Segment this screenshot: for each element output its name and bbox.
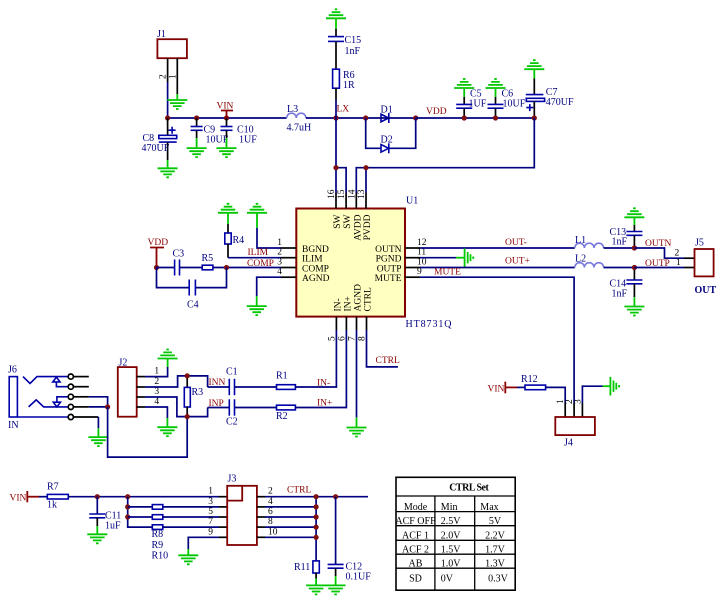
- inductor L3 4.7uH: [287, 104, 312, 134]
- connector J5: [695, 238, 717, 297]
- wire J6 sleeve to ground: [73, 417, 98, 428]
- svg-text:10: 10: [417, 258, 427, 268]
- node J6 tip/ring junction: [105, 404, 110, 409]
- svg-text:4: 4: [277, 267, 282, 277]
- node bus row10: [314, 535, 319, 540]
- J6 contact circle 1: [68, 374, 73, 379]
- svg-text:3: 3: [277, 258, 282, 268]
- svg-text:5V: 5V: [489, 516, 502, 527]
- J6 ring switch arrow: [53, 397, 68, 407]
- svg-text:IN+: IN+: [343, 296, 353, 311]
- wire J3 pin 9 to ground: [188, 537, 227, 549]
- node J1/C8 junction: [165, 115, 170, 120]
- svg-text:C4: C4: [187, 300, 199, 311]
- svg-text:R11: R11: [294, 562, 310, 573]
- wire OUTP to J5 pin 1: [634, 267, 694, 269]
- wire J2 pin 3 to INP rail: [137, 397, 208, 417]
- svg-text:VDD: VDD: [426, 107, 447, 117]
- diode D2: [381, 135, 393, 154]
- svg-text:R1: R1: [276, 371, 288, 382]
- resistor R7 1k: [47, 482, 68, 511]
- node C7/AVDD junction: [532, 115, 537, 120]
- wire L3 to LX: [306, 117, 366, 119]
- svg-text:R3: R3: [192, 387, 204, 398]
- wire R10 to J3 pin 7: [163, 526, 227, 528]
- node C5 junction: [462, 115, 467, 120]
- svg-text:1: 1: [676, 258, 681, 268]
- svg-text:R5: R5: [202, 253, 214, 264]
- svg-text:D1: D1: [381, 105, 393, 116]
- svg-text:Mode: Mode: [404, 502, 428, 513]
- wire OUTN to J5 pin 2: [634, 248, 694, 258]
- svg-text:BGND: BGND: [302, 245, 329, 255]
- wire VIN to R7: [39, 496, 47, 498]
- svg-text:470UF: 470UF: [546, 97, 574, 108]
- svg-text:L3: L3: [287, 104, 298, 115]
- wire L1 to OUTN: [604, 247, 635, 249]
- svg-text:1.3V: 1.3V: [485, 559, 506, 570]
- ground above J2 pin 1 (inverted): [158, 350, 178, 368]
- wire J6 pin 4: [73, 406, 107, 408]
- ground under C9: [187, 138, 207, 157]
- svg-text:Max: Max: [480, 502, 498, 513]
- svg-text:J4: J4: [564, 438, 573, 449]
- capacitor C2: [226, 399, 238, 427]
- svg-text:1nF: 1nF: [612, 237, 628, 248]
- resistor R2: [276, 405, 295, 422]
- svg-text:16: 16: [327, 189, 337, 199]
- wire J2 pin 4 to ground: [137, 407, 168, 418]
- port VIN (J4 row): [488, 382, 518, 395]
- wire R7 to J3 pin 1: [68, 496, 227, 498]
- svg-text:11: 11: [417, 248, 426, 258]
- resistor R10: [152, 525, 163, 530]
- svg-text:4: 4: [154, 397, 159, 407]
- svg-text:ACF 1: ACF 1: [402, 531, 429, 542]
- wire J3 pin 4: [257, 506, 316, 508]
- svg-text:1.0V: 1.0V: [441, 559, 462, 570]
- wire R11 bus vertical: [315, 497, 317, 561]
- svg-text:ACF OFF: ACF OFF: [395, 516, 436, 527]
- connector J4: [555, 417, 595, 449]
- svg-text:J6: J6: [8, 365, 17, 376]
- ground below C14: [624, 297, 644, 316]
- svg-text:10: 10: [268, 527, 278, 537]
- svg-text:2.2V: 2.2V: [485, 531, 506, 542]
- ground above C6 (inverted): [486, 79, 506, 97]
- svg-text:1uF: 1uF: [105, 521, 121, 532]
- svg-text:C2: C2: [226, 417, 238, 428]
- svg-text:7: 7: [208, 517, 213, 527]
- svg-text:ILIM: ILIM: [248, 248, 269, 258]
- wire R9 to J3 pin 5: [163, 516, 227, 518]
- svg-text:10UF: 10UF: [206, 134, 229, 145]
- ground below J3 pin 9: [178, 549, 198, 564]
- svg-text:1.5V: 1.5V: [441, 545, 462, 556]
- ground above C7 (inverted): [524, 60, 544, 78]
- wire VIN bus: [168, 117, 287, 119]
- U1 pin 15 lead: [345, 193, 347, 209]
- ground below C11: [87, 526, 107, 543]
- wire D2 branch: [366, 118, 416, 148]
- svg-text:2: 2: [277, 248, 282, 258]
- wire J3 pin 6: [257, 516, 316, 518]
- wire LX drop to SW pins: [336, 118, 346, 193]
- wire J6 pin 3: [73, 397, 107, 407]
- wire R9 row: [128, 516, 153, 518]
- svg-text:PVDD: PVDD: [363, 214, 373, 240]
- wire INP to C2: [208, 407, 230, 409]
- wire pin13 riser: [365, 168, 367, 193]
- wire AGND pin 4: [257, 277, 297, 296]
- svg-text:2: 2: [159, 74, 169, 79]
- svg-text:AGND: AGND: [302, 274, 330, 284]
- wire J3 pin 8: [257, 526, 316, 528]
- resistor R8: [152, 505, 163, 510]
- svg-text:LX: LX: [337, 105, 350, 115]
- svg-text:COMP: COMP: [302, 264, 329, 274]
- svg-text:R8: R8: [152, 529, 164, 540]
- node LX/SW junction: [333, 165, 338, 170]
- node bus row4: [314, 504, 319, 509]
- svg-text:C1: C1: [226, 367, 238, 378]
- capacitor C1: [226, 367, 238, 396]
- wire J3 pin 2 CTRL: [257, 496, 368, 498]
- power port VIN (top): [217, 102, 234, 119]
- node C11 junction: [95, 494, 100, 499]
- svg-text:MUTE: MUTE: [375, 274, 402, 284]
- J6 contact circle 2: [68, 384, 73, 389]
- J4 pin 3 lead: [581, 403, 583, 417]
- connector J3: [227, 474, 257, 546]
- node VDD/C4 junction: [154, 265, 159, 270]
- node C10/VIN junction: [224, 115, 229, 120]
- ground sideways PGND: [456, 248, 473, 267]
- resistor R1: [276, 371, 295, 390]
- svg-text:VIN: VIN: [488, 385, 505, 395]
- ground above C5 (inverted): [454, 79, 474, 97]
- wire C3 to R5: [180, 267, 203, 269]
- wire C1 to R1: [235, 386, 277, 388]
- node pin13 junction: [363, 165, 368, 170]
- node D branch left: [363, 115, 368, 120]
- ground below AGND pin 4: [247, 296, 267, 315]
- svg-text:SW: SW: [333, 214, 343, 228]
- node LX junction: [333, 115, 338, 120]
- wire OUTP pin 10: [405, 267, 575, 269]
- svg-text:1: 1: [154, 367, 159, 377]
- svg-text:IN-: IN-: [333, 298, 343, 311]
- svg-text:8: 8: [268, 517, 273, 527]
- svg-text:R2: R2: [276, 411, 288, 422]
- svg-text:3: 3: [208, 497, 213, 507]
- wire CTRL pin 8: [367, 317, 398, 367]
- capacitor C13 1nF: [610, 225, 643, 248]
- wire J3 pin 10: [257, 536, 316, 538]
- svg-text:OUT+: OUT+: [505, 257, 530, 267]
- svg-text:L1: L1: [575, 235, 586, 246]
- J1 pin 1 lead: [176, 58, 178, 94]
- ground below C12: [326, 576, 346, 594]
- resistor R6 1R: [333, 69, 355, 118]
- svg-text:1nF: 1nF: [612, 289, 628, 300]
- wire ILIM pin 2: [228, 257, 296, 259]
- wire AGND pin 7 to ground: [356, 317, 358, 418]
- node bus row6: [314, 514, 319, 519]
- svg-text:1UF: 1UF: [469, 99, 487, 110]
- resistor R3: [184, 376, 203, 417]
- svg-text:Min: Min: [441, 502, 458, 513]
- svg-text:CTRL Set: CTRL Set: [449, 483, 489, 494]
- svg-text:OUT-: OUT-: [505, 238, 527, 248]
- svg-text:CTRL: CTRL: [364, 287, 374, 311]
- wire D1 to VDD node: [366, 117, 416, 119]
- svg-text:R12: R12: [521, 374, 538, 385]
- wire R12 to J4 pin 1: [546, 387, 566, 403]
- capacitor C8 470UF polarized: [142, 118, 177, 160]
- svg-text:SW: SW: [343, 214, 353, 228]
- svg-text:4.7uH: 4.7uH: [287, 123, 312, 134]
- capacitor C7 470UF polarized: [526, 79, 574, 119]
- wire J2 pin 2 to INN rail: [137, 376, 208, 387]
- svg-text:IN+: IN+: [317, 399, 332, 409]
- svg-text:MUTE: MUTE: [434, 268, 461, 278]
- resistor R9: [152, 515, 163, 520]
- J4 pin 1 lead: [564, 403, 566, 417]
- J6 contact circle 4: [68, 404, 73, 409]
- wire J6 to INP rail: [108, 407, 188, 457]
- capacitor C9 10UF: [191, 118, 229, 145]
- wire R bus vertical: [128, 497, 153, 527]
- svg-text:AGND: AGND: [354, 284, 364, 312]
- node R5/C4 junction: [224, 265, 229, 270]
- svg-text:ILIM: ILIM: [302, 255, 323, 265]
- wire L2 to OUTP: [604, 267, 635, 269]
- node R bus junction: [125, 494, 130, 499]
- J6 stub pin 1: [73, 376, 88, 378]
- svg-text:AB: AB: [409, 559, 423, 570]
- svg-text:SD: SD: [409, 573, 422, 584]
- ground above C15 (inverted): [326, 9, 346, 28]
- table CTRL Set: [395, 477, 515, 590]
- U1 pin 14 lead: [355, 193, 357, 209]
- J1 pin 2 lead: [167, 58, 169, 118]
- svg-text:R10: R10: [152, 551, 169, 562]
- resistor R12: [521, 374, 546, 390]
- wire R8 row: [128, 506, 153, 508]
- wire VDD to C3: [157, 267, 175, 269]
- wire AVDD net to VDD: [356, 118, 534, 193]
- connector J6 audio jack body: [8, 365, 19, 432]
- svg-text:R4: R4: [233, 235, 245, 246]
- ground above R4 (inverted): [218, 204, 238, 224]
- ground under J1 pin 1: [167, 94, 187, 109]
- J6 ring contact: [29, 400, 69, 407]
- svg-text:12: 12: [417, 238, 427, 248]
- resistor R11: [294, 561, 319, 579]
- svg-text:IN: IN: [8, 420, 19, 431]
- node R9 junction: [125, 514, 130, 519]
- resistor R5: [202, 253, 214, 270]
- node C13/OUTN junction: [632, 245, 637, 250]
- wire R2 to IN+ pin 6: [295, 317, 346, 408]
- connector J2: [118, 358, 137, 417]
- capacitor C14 1nF: [610, 268, 643, 300]
- svg-text:R9: R9: [152, 540, 164, 551]
- ground below J2 pin 4: [157, 418, 177, 436]
- wire R5 to COMP pin 3: [213, 267, 296, 269]
- resistor R4: [225, 224, 244, 258]
- diode D1: [381, 105, 393, 124]
- port VIN (J3 row): [10, 491, 40, 504]
- svg-text:J5: J5: [695, 238, 704, 249]
- svg-text:5: 5: [208, 507, 213, 517]
- svg-text:L2: L2: [575, 254, 586, 265]
- svg-text:HT8731Q: HT8731Q: [406, 319, 453, 330]
- node R3 bottom junction: [185, 414, 190, 419]
- svg-text:IN-: IN-: [317, 379, 330, 389]
- ground under C8: [158, 160, 178, 177]
- svg-text:1: 1: [168, 74, 178, 79]
- wire INN to C1: [208, 386, 230, 388]
- svg-text:3: 3: [154, 387, 159, 397]
- svg-text:R7: R7: [47, 482, 59, 493]
- capacitor C10 1UF: [221, 118, 258, 145]
- capacitor C3: [173, 249, 185, 276]
- wire J4 pin 3 to ground: [582, 386, 602, 403]
- wire R1 to IN- pin 5: [295, 317, 336, 387]
- J4 pin 2 lead: [573, 403, 575, 417]
- J6 sleeve contact: [17, 416, 68, 418]
- svg-text:OUTN: OUTN: [375, 245, 402, 255]
- svg-text:PGND: PGND: [376, 255, 402, 265]
- svg-text:CTRL: CTRL: [287, 486, 311, 496]
- U1 pin 16 lead: [335, 193, 337, 209]
- wire MUTE pin 9: [405, 277, 574, 403]
- wire pin16 riser: [335, 168, 337, 193]
- node bus row2: [314, 494, 319, 499]
- wire OUTN pin 12: [405, 247, 575, 249]
- svg-text:VIN: VIN: [10, 494, 27, 504]
- power port VDD (left): [148, 238, 169, 268]
- ground above C13 (inverted): [624, 208, 644, 225]
- svg-text:13: 13: [357, 189, 367, 199]
- ground under C10: [217, 138, 237, 157]
- capacitor C11 1uF: [89, 497, 121, 532]
- svg-text:0.1UF: 0.1UF: [346, 572, 372, 583]
- svg-text:9: 9: [208, 527, 213, 537]
- inductor L1: [575, 235, 604, 248]
- svg-text:0.3V: 0.3V: [488, 573, 509, 584]
- J6 contact circle 5: [68, 414, 73, 419]
- wire PGND pin 11: [405, 257, 456, 259]
- svg-text:1k: 1k: [47, 500, 57, 511]
- svg-text:0V: 0V: [441, 573, 454, 584]
- node R3 top junction: [185, 373, 190, 378]
- ground sideways J4: [603, 377, 619, 396]
- svg-text:1UF: 1UF: [239, 134, 257, 145]
- svg-text:2.0V: 2.0V: [441, 531, 462, 542]
- svg-text:VDD: VDD: [148, 238, 169, 248]
- capacitor C15 1nF: [328, 29, 361, 69]
- capacitor C4: [187, 280, 199, 311]
- ground below J6 sleeve: [88, 428, 108, 446]
- svg-text:2: 2: [154, 377, 159, 387]
- op-amp U1 HT8731Q body: [296, 196, 452, 331]
- svg-text:U1: U1: [406, 196, 418, 207]
- wire C4 branch: [157, 268, 227, 288]
- svg-text:OUT: OUT: [695, 285, 717, 296]
- svg-text:6: 6: [268, 507, 273, 517]
- svg-text:2: 2: [675, 248, 680, 258]
- capacitor C5 1UF: [456, 89, 487, 119]
- node C14/OUTP junction: [632, 265, 637, 270]
- wire J2 pin 1 to ground: [137, 367, 168, 377]
- wire VIN to R12: [517, 386, 525, 388]
- wire VDD bus: [416, 117, 535, 119]
- node C12 junction: [333, 494, 338, 499]
- J6 stub pin 2: [73, 386, 88, 388]
- node C6 junction: [493, 115, 498, 120]
- ground below R11: [306, 579, 326, 595]
- svg-text:C3: C3: [173, 249, 185, 260]
- node R8 junction: [125, 504, 130, 509]
- svg-text:1: 1: [208, 487, 213, 497]
- wire BGND pin 1: [257, 228, 296, 248]
- svg-text:1.7V: 1.7V: [485, 545, 506, 556]
- wire R8 to J3 pin 3: [163, 506, 227, 508]
- ground above BGND (inverted): [247, 204, 267, 228]
- svg-text:1R: 1R: [343, 80, 355, 91]
- node bus row8: [314, 525, 319, 530]
- capacitor C6 10UF: [488, 89, 526, 119]
- node C9 junction: [194, 115, 199, 120]
- svg-text:OUTP: OUTP: [377, 264, 402, 274]
- svg-text:1: 1: [277, 238, 282, 248]
- wire C2 to R2: [235, 407, 277, 409]
- J6 contact circle 3: [68, 394, 73, 399]
- J6 tip contact: [23, 377, 68, 384]
- svg-text:C15: C15: [345, 35, 362, 46]
- inductor L2: [575, 254, 604, 268]
- svg-text:2: 2: [268, 487, 273, 497]
- svg-text:9: 9: [417, 267, 422, 277]
- svg-text:J3: J3: [228, 474, 237, 485]
- node D branch right: [413, 115, 418, 120]
- J6 tip switch arrow: [53, 377, 68, 387]
- svg-text:D2: D2: [381, 135, 393, 146]
- svg-text:AVDD: AVDD: [353, 214, 363, 240]
- svg-text:14: 14: [347, 189, 357, 199]
- svg-text:1nF: 1nF: [345, 46, 361, 57]
- svg-text:470UF: 470UF: [142, 143, 170, 154]
- svg-text:2.5V: 2.5V: [441, 516, 462, 527]
- connector J1: [157, 29, 187, 58]
- svg-text:ACF 2: ACF 2: [402, 545, 429, 556]
- svg-text:4: 4: [268, 497, 273, 507]
- U1 pin 13 lead: [365, 193, 367, 209]
- ground below AGND pin 7: [347, 417, 367, 436]
- svg-text:15: 15: [337, 189, 347, 199]
- svg-text:10UF: 10UF: [503, 99, 526, 110]
- capacitor C12 0.1UF: [328, 497, 372, 583]
- svg-text:CTRL: CTRL: [376, 356, 400, 366]
